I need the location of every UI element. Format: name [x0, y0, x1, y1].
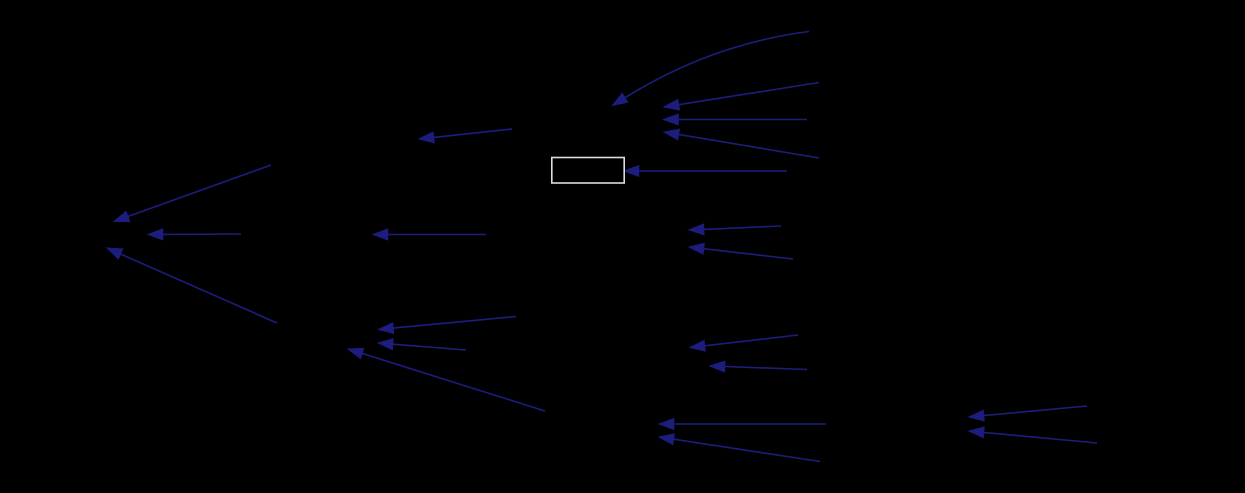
edge E1	[114, 165, 271, 222]
edge E18	[659, 419, 826, 430]
edge E9 (curved)	[613, 32, 810, 106]
edge E13 (into node box)	[624, 166, 787, 177]
edge E15	[689, 243, 793, 259]
edge E14	[689, 224, 781, 235]
edge E7	[378, 339, 466, 350]
edge E12	[664, 129, 819, 158]
edge E17	[710, 361, 807, 372]
edge E16	[690, 335, 798, 351]
edge E6	[379, 317, 517, 334]
edge E20	[969, 406, 1087, 421]
edge E2	[148, 229, 241, 240]
edge E21	[969, 427, 1097, 443]
edge E5	[373, 229, 486, 240]
edge E11	[664, 114, 808, 125]
edge E19	[659, 434, 820, 462]
edge E4	[419, 129, 512, 143]
edge E3	[107, 248, 277, 323]
node box (white outlined rectangle)	[552, 158, 624, 184]
edge E8	[348, 348, 545, 411]
edge E10	[664, 83, 819, 111]
